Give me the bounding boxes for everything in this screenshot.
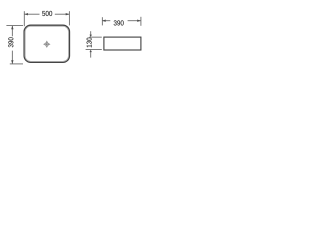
130 dim extension line bottom [86,48,102,50]
side view rectangle [104,37,141,50]
390 left dim arrow bottom [11,60,13,64]
390 left dim line top segment [11,26,13,37]
390 right dim line left segment [102,20,110,22]
390 right dim label [114,20,124,25]
390 right dim extension tick right [140,17,142,26]
500 dim extension tick left [23,11,25,26]
500 dim extension tick right [68,11,70,25]
390 right dim arrow right [137,20,141,22]
390 left dim extension line top [6,25,23,27]
500 dim line right segment [55,13,70,15]
390 right dim arrow left [102,20,106,22]
390 left dim line bottom segment [11,51,13,64]
390 left dim label (rotated) [8,37,13,47]
390 left dim arrow top [11,26,13,30]
130 dim upper arrow (pointing down) [90,35,92,38]
390 right dim line right segment [128,20,141,22]
130 dim extension line top [89,36,102,38]
130 dim label (rotated) [87,38,92,48]
drain symbol [43,41,50,48]
500 dim arrow left [24,13,28,15]
390 left dim extension line bottom [10,63,23,65]
top view basin outer outline [24,25,69,62]
500 dim arrow right [66,13,70,15]
130 dim lower arrow tail [90,52,92,58]
130 dim upper arrow tail [90,31,92,35]
390 right dim extension tick left [101,17,103,25]
130 dim lower arrow (pointing up) [90,50,92,53]
basin inner rim [25,26,68,61]
500 dim line left segment [24,13,39,15]
500 dim label [42,11,52,16]
